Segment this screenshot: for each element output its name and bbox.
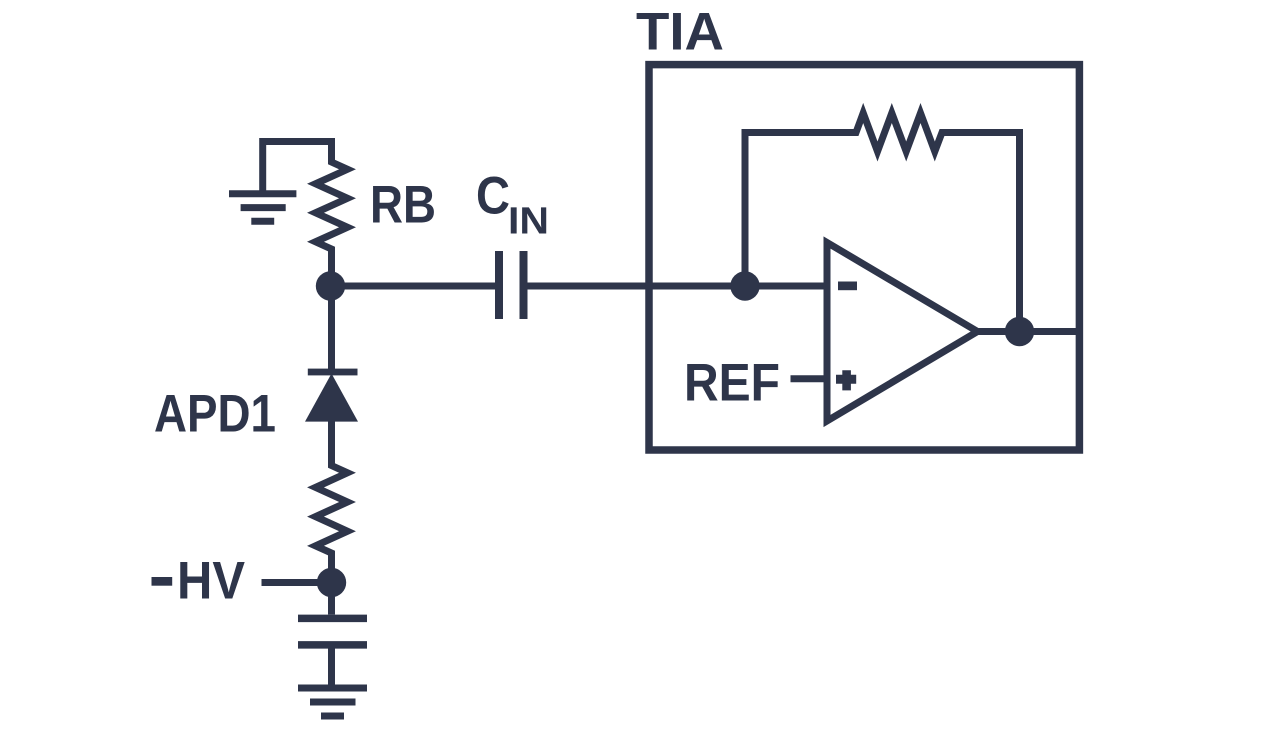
node D (-HV junction) bbox=[317, 568, 346, 597]
svg-text:RB: RB bbox=[370, 176, 436, 235]
wire: CIN right plate into TIA box to op-amp inverting input bbox=[528, 283, 828, 290]
diode APD1 triangle (filled, pointing up) bbox=[305, 374, 358, 422]
svg-text:REF: REF bbox=[684, 354, 780, 413]
wire: -HV label stub bbox=[262, 579, 332, 586]
svg-text:APD1: APD1 bbox=[154, 385, 276, 444]
svg-text:IN: IN bbox=[508, 201, 549, 243]
ground GND2 (bottom, three bars) bbox=[298, 688, 367, 716]
wire: -HV node down to bypass capacitor bbox=[328, 583, 335, 615]
capacitor C2 (bypass, two horizontal plates) bbox=[298, 618, 367, 645]
svg-text:C: C bbox=[476, 167, 510, 226]
resistor R2 (lower bias zigzag) bbox=[316, 421, 348, 583]
node B (inverting input / feedback junction) bbox=[730, 271, 759, 300]
-HV minus bar bbox=[152, 577, 173, 586]
wire: feedback right horizontal and vertical down to node C bbox=[942, 133, 1020, 332]
svg-text:TIA: TIA bbox=[636, 3, 724, 62]
wire: top-left ground hook (up from GND, right, down to RB top) bbox=[263, 142, 332, 191]
wire: bypass capacitor to ground bbox=[328, 648, 335, 685]
capacitor C_IN (two vertical plates) bbox=[499, 251, 524, 319]
op-amp U1 triangle bbox=[827, 243, 978, 422]
wire: node A to capacitor CIN left plate bbox=[331, 283, 496, 290]
diode APD1 cathode bar bbox=[308, 369, 358, 376]
wire: REF stub to non-inverting input bbox=[791, 375, 828, 382]
resistor RB (vertical zigzag) bbox=[316, 142, 348, 287]
op-amp plus sign bbox=[836, 370, 856, 390]
wire: feedback left vertical from node B up bbox=[745, 133, 856, 287]
ground GND1 (top-left, three bars) bbox=[229, 194, 296, 222]
resistor RF (feedback zigzag) bbox=[850, 113, 948, 152]
op-amp minus sign bbox=[838, 282, 857, 291]
svg-text:HV: HV bbox=[177, 552, 245, 611]
node C (output / feedback junction) bbox=[1005, 317, 1034, 346]
wire: node A down to diode APD1 cathode bbox=[328, 286, 335, 372]
TIA box outline bbox=[649, 65, 1079, 450]
node A (RB / APD1 / CIN junction) bbox=[316, 271, 345, 300]
wire: op-amp output to node C to box right edge bbox=[978, 328, 1080, 335]
